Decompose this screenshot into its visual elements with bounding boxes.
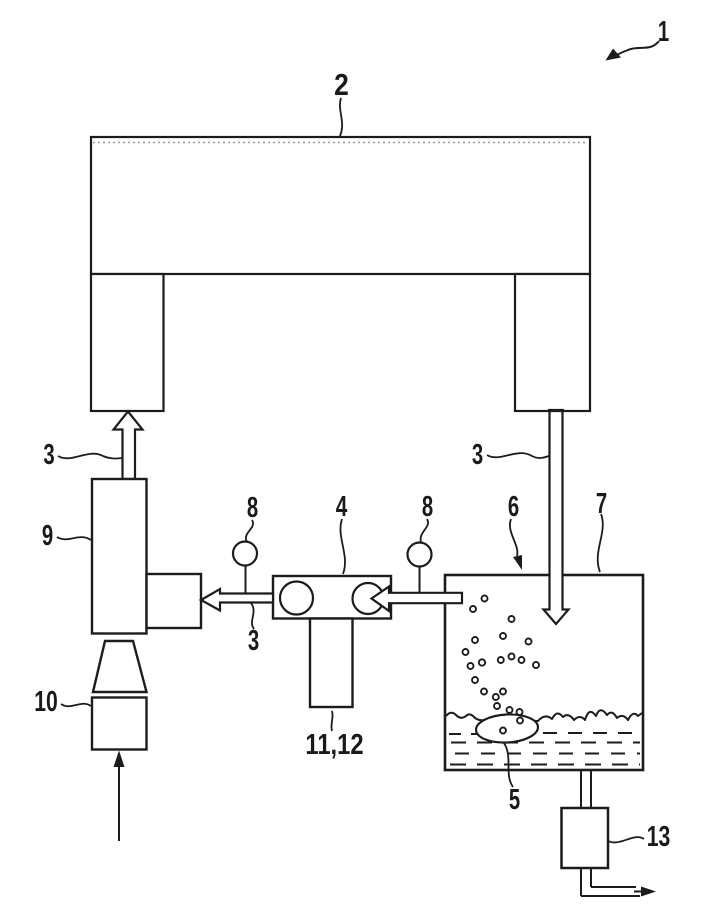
leader for 8 left [246,520,253,541]
svg-text:11,12: 11,12 [305,728,363,761]
leader for 5 [504,743,513,787]
label 3 top-left [43,439,54,471]
box 9 [92,479,147,634]
gauge 8 right [408,543,432,593]
hollow left arrow 3 (4 to 9 block) [201,589,273,611]
label 6 [508,491,519,523]
bubbles 6 [463,596,540,734]
leader for 9 [57,537,91,540]
svg-text:8: 8 [422,491,433,523]
label 2 [334,68,349,102]
droplet ellipse 5 [475,713,538,744]
svg-text:3: 3 [472,439,483,471]
label 1 [658,16,669,48]
svg-text:2: 2 [334,68,349,102]
outlet pipe from 13 [581,868,640,896]
svg-text:8: 8 [247,492,258,524]
leader for 3 top-left [58,454,123,459]
label 5 [509,784,520,816]
label 11,12 [305,728,363,761]
box 10 [92,698,147,750]
svg-text:6: 6 [508,491,519,523]
label 3 middle [248,625,259,657]
leader for 3 middle [251,603,254,629]
hollow up arrow 3 (from 9 into left leg) [114,412,143,480]
leader for 10 [61,704,91,707]
label 7 [596,488,607,520]
leader for 8 right [421,519,429,542]
svg-text:10: 10 [34,686,58,718]
funnel between 9 and 10 [93,641,147,692]
label 3 top-right [472,439,483,471]
gauge 8 left [233,542,257,594]
svg-text:1: 1 [658,16,669,48]
liquid dashes [449,733,640,765]
right leg of box 2 [515,274,590,411]
svg-text:9: 9 [42,520,53,552]
valve block 4 [273,576,391,619]
svg-text:3: 3 [248,625,259,657]
inlet arrow below 10 [114,751,125,842]
svg-text:13: 13 [647,821,671,853]
stem 11,12 below 4 [310,619,353,708]
tank 7 [445,575,643,770]
leader for 13 [608,837,644,842]
label 13 [647,821,671,853]
label 10 [34,686,58,718]
leader for 4 [340,519,345,574]
svg-text:3: 3 [43,439,54,471]
side block on 9 [147,574,202,628]
right valve circle in 4 [353,583,384,614]
label 4 [336,491,348,523]
svg-text:4: 4 [336,491,348,523]
liquid surface wave 5 [446,710,642,721]
label 9 [42,520,53,552]
leader for 11,12 [331,711,332,731]
box 2 (upper unit) [91,137,590,274]
left valve circle in 4 [280,582,313,615]
leader for 1 [606,41,660,61]
label 8 left [247,492,258,524]
leader for 7 [598,514,603,572]
leader for 3 top-right [487,453,549,458]
hollow left arrow (tank to right valve) [372,587,463,612]
svg-text:5: 5 [509,784,520,816]
hollow down arrow 3 (right leg into tank) [544,410,569,624]
pipe tank to 13 [581,771,591,808]
leader for 2 [340,98,342,136]
label 8 right [422,491,433,523]
leader for 6 [510,519,522,570]
outlet arrow [634,887,656,897]
box 13 [562,808,609,868]
left leg of box 2 [91,274,164,411]
